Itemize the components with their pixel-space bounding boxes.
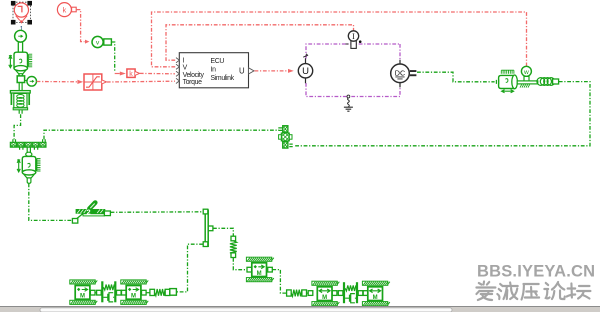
stub: [308, 291, 313, 296]
svg-text:Torque: Torque: [183, 79, 202, 86]
arrowhead: [85, 40, 89, 44]
shaft wire: [18, 42, 22, 52]
svg-text:w: w: [523, 69, 529, 76]
svg-text:2: 2: [87, 208, 91, 217]
svg-text:M: M: [322, 295, 327, 301]
saturation block: [84, 74, 106, 90]
spring vertical: [230, 236, 237, 257]
arrowhead: [77, 80, 83, 84]
mass block 3: [312, 281, 339, 306]
wire gain to ECU Velocity: [140, 72, 175, 74]
shaft: [19, 83, 22, 91]
svg-text:Velocity: Velocity: [183, 72, 205, 79]
wire electric bottom: [306, 83, 400, 97]
stub: [97, 290, 102, 295]
spring horizontal left: [150, 289, 170, 296]
port square: [170, 289, 177, 296]
svg-text:DC: DC: [395, 69, 405, 78]
mass block 1: [70, 280, 97, 305]
wire k to v: [77, 10, 85, 42]
wire electric top right: [399, 44, 401, 60]
stub: [122, 290, 127, 295]
link: [363, 292, 365, 294]
ground: [344, 95, 353, 111]
shaft: [19, 75, 22, 76]
svg-text:V: V: [183, 65, 188, 72]
torsion spring coil: [537, 78, 555, 86]
velocity sensor v: [92, 36, 111, 47]
svg-text:BBS.IYEYA.CN: BBS.IYEYA.CN: [477, 263, 595, 281]
svg-text:I: I: [352, 32, 355, 41]
link: [121, 292, 123, 294]
wire v to gain: [111, 42, 114, 72]
wire spring to gear row: [14, 114, 21, 139]
svg-text:U: U: [302, 66, 309, 77]
pump: [496, 70, 517, 93]
link: [337, 292, 339, 294]
svg-text:M: M: [131, 294, 136, 300]
svg-text:k: k: [129, 71, 133, 78]
current sensor I: [346, 31, 362, 49]
wire motor2 to lever: [29, 183, 73, 220]
rotary spring component: [10, 91, 30, 114]
svg-text:In: In: [211, 67, 217, 74]
DC motor: [391, 60, 417, 88]
rotary source circle: [15, 30, 27, 42]
piecewise signal source (selected): [11, 1, 32, 25]
shaft bar: [517, 81, 538, 84]
mechanical junction: [203, 209, 213, 246]
wire pump shaft to gearbox: [295, 82, 590, 146]
electric motor 2: [17, 156, 40, 183]
arrowhead: [120, 72, 126, 76]
svg-text:k: k: [63, 5, 67, 14]
stub left: [247, 267, 252, 272]
stub: [363, 291, 368, 296]
svg-text:M: M: [80, 294, 85, 300]
mass block mid: [246, 257, 273, 282]
lever mechanism: [72, 203, 110, 224]
svg-text:M: M: [373, 295, 378, 301]
wire DC motor to pump: [417, 72, 495, 82]
gear train row: [10, 139, 46, 156]
constant k source: [57, 3, 76, 17]
wire mass mid to right chain: [272, 270, 286, 294]
ECU Simulink interface block: [176, 53, 254, 88]
stub: [338, 291, 343, 296]
wire junction to spring: [213, 228, 233, 236]
spring horizontal right: [287, 290, 307, 297]
spring-damper 1: [101, 281, 116, 302]
watermark chinese: [476, 282, 590, 301]
voltage source U: [298, 54, 312, 83]
torque sensor block: [17, 76, 24, 83]
gearbox vertical: [278, 126, 292, 149]
torque sensor circle: [25, 77, 37, 87]
link: [307, 292, 309, 294]
svg-text:ECU: ECU: [211, 58, 225, 65]
link: [95, 292, 97, 294]
stub right: [268, 267, 273, 272]
mass block 2: [121, 280, 148, 305]
gain k block: [127, 69, 140, 78]
stub: [358, 291, 363, 296]
electric motor 1: [9, 52, 32, 79]
svg-text:M: M: [257, 271, 262, 277]
wire gear row to gearbox: [44, 130, 279, 139]
coupler: [553, 79, 559, 84]
mass block 4: [362, 281, 389, 306]
bearing hatch: [520, 85, 530, 88]
wire speed feedback to ECU V: [152, 12, 527, 67]
stub: [142, 290, 147, 295]
stub: [332, 291, 337, 296]
wire saturation to ECU Torque: [107, 80, 175, 83]
speed sensor w: [521, 66, 531, 81]
svg-text:U: U: [239, 67, 245, 76]
svg-text:v: v: [96, 40, 100, 47]
wire electric top left: [306, 44, 400, 59]
shaft: [28, 155, 31, 158]
stub: [90, 290, 95, 295]
wire spring to mass mid: [233, 258, 247, 270]
scrollbar: [0, 307, 600, 312]
wire current feedback to ECU I: [166, 25, 354, 60]
wire lever to junction: [111, 211, 203, 214]
link: [146, 292, 150, 294]
wire ECU U to voltage source: [255, 70, 289, 72]
spring-damper 2: [343, 282, 358, 303]
wire junction to left chain: [177, 244, 204, 292]
stub: [117, 290, 122, 295]
arrowhead: [288, 69, 294, 73]
svg-text:Simulink: Simulink: [211, 75, 235, 82]
wire torque sensor to saturation: [37, 81, 78, 83]
